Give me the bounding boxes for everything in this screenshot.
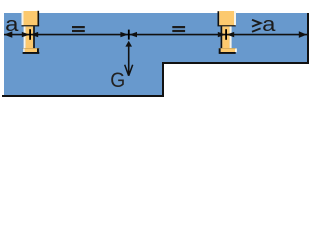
svg-text:G: G (110, 69, 125, 92)
beam dimension line (4, 34, 307, 36)
junction at load point (tick + facing arrowheads) (120, 30, 137, 40)
plate dark border: right edge (2, 13, 308, 96)
support S2 (right clamp, mirrored) (218, 11, 237, 54)
right end arrowhead (299, 31, 307, 38)
up-pointing marker arrow below beam at load point (125, 41, 132, 47)
label = (first equal span) (72, 26, 85, 32)
svg-text:a: a (5, 13, 19, 36)
beam-on-two-supports diagram (0, 0, 314, 104)
label >=a (right span): slanted greater-or-equal sign (252, 20, 261, 32)
svg-text:a: a (262, 13, 276, 36)
force G open arrowhead (down) (125, 65, 133, 76)
support S1 (left clamp) (22, 11, 40, 54)
left end arrowhead (4, 31, 12, 37)
junction at S1 (tick + facing arrowheads) (22, 29, 38, 40)
junction at S2 (tick + facing arrowheads) (218, 29, 234, 40)
label = (second equal span) (172, 26, 185, 32)
blue plate (L-shaped) (4, 13, 308, 96)
force G shaft (128, 45, 130, 76)
